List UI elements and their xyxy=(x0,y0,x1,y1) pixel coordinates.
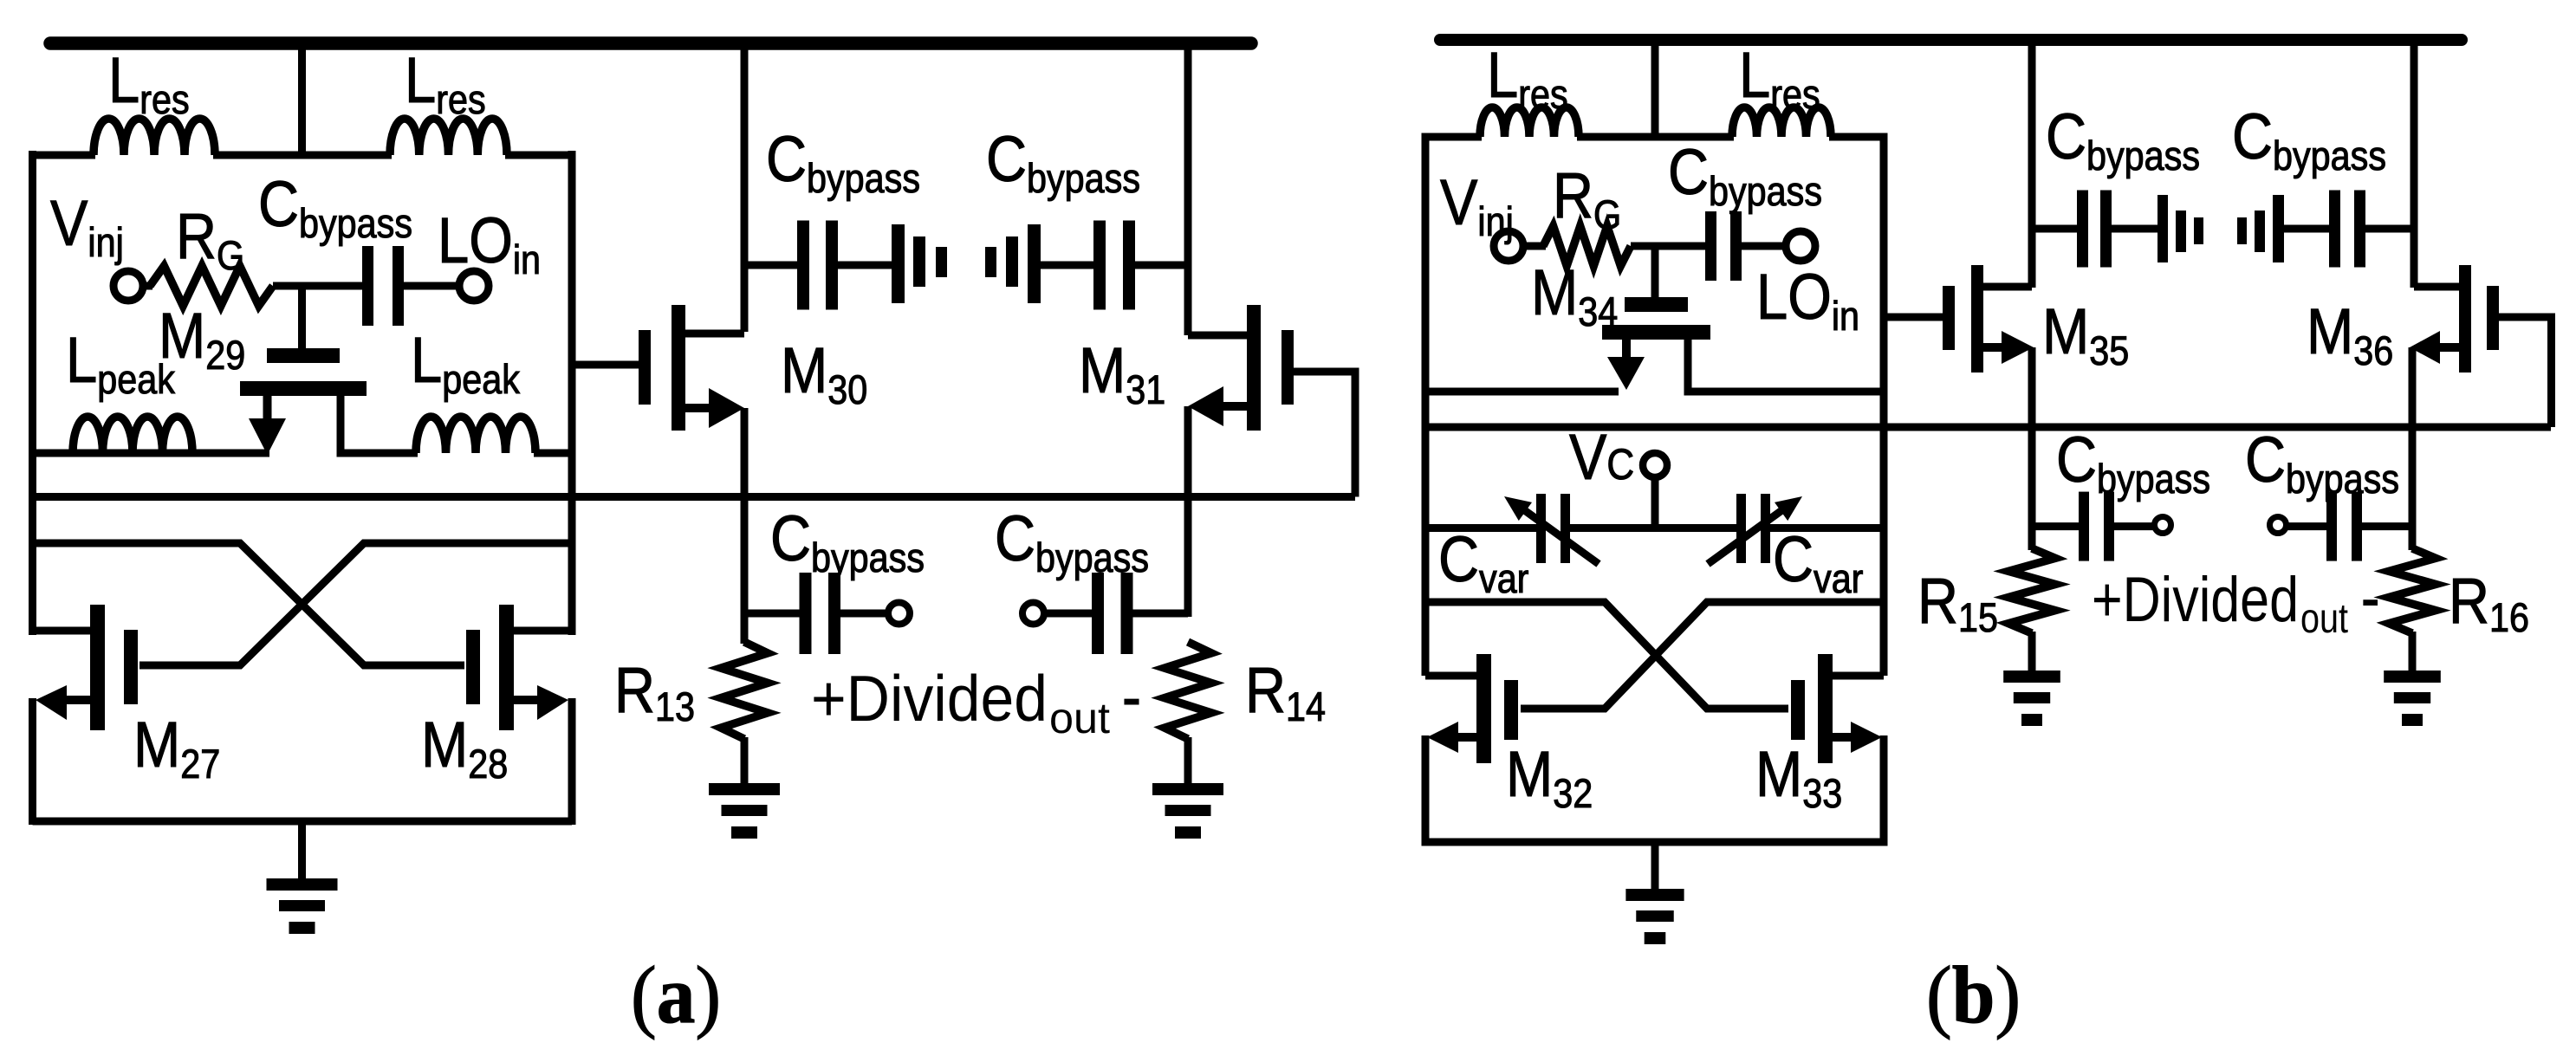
label (b) xyxy=(1926,949,2021,1040)
transistor M36 source arrow xyxy=(2410,331,2461,364)
transistor M31 gate bar xyxy=(1282,330,1294,405)
terminal Vinj (b) xyxy=(1494,231,1523,261)
wire cap to terminal (a left) xyxy=(839,610,887,618)
wire R13 top xyxy=(741,613,749,644)
svg-text:(b): (b) xyxy=(1926,949,2021,1040)
wire M31 gate lead xyxy=(1292,372,1355,497)
label M32 xyxy=(1506,738,1593,817)
wire M35 drain to cap (b) xyxy=(2032,225,2079,233)
transistor M36 gate bar xyxy=(2487,286,2499,350)
transistor M32 gate bar xyxy=(1504,680,1518,740)
wire RG to gate node (a) xyxy=(273,282,362,290)
transistor M30 drain lead xyxy=(684,330,744,338)
label M29 xyxy=(159,300,245,379)
label R16 xyxy=(2449,565,2529,641)
label Cbypass gate (b) xyxy=(1668,136,1822,215)
wire M31 drain vertical xyxy=(1184,43,1192,335)
terminal LOin (b) xyxy=(1786,231,1815,261)
wire cap mid-left (a) xyxy=(838,262,893,269)
label LOin (b) xyxy=(1756,261,1859,340)
label Vinj (a) xyxy=(50,187,124,266)
terminal divided out - (b) xyxy=(2270,517,2287,534)
terminal divided out + (a) xyxy=(888,603,910,625)
ground R15 xyxy=(2003,671,2060,726)
ground R14 xyxy=(1152,783,1223,839)
transistor M33 source arrow xyxy=(1831,722,1882,753)
wire M36 source vertical xyxy=(2409,347,2417,550)
label M36 xyxy=(2307,295,2393,374)
label Lpeak right (a) xyxy=(411,324,521,403)
label Vinj (b) xyxy=(1440,166,1514,245)
wire varactor line right (b) xyxy=(1768,524,1884,532)
wire cross-couple A (a) xyxy=(33,543,465,665)
wire varactor line mid (b) xyxy=(1568,524,1738,532)
wire tank box top-mid segment xyxy=(213,152,392,159)
wire M35 source to cap (b) xyxy=(2032,522,2080,530)
wire tank box top-right segment xyxy=(505,152,572,159)
capacitor Cbypass top-left (b) xyxy=(2077,191,2112,268)
transistor M35 channel bar xyxy=(1971,265,1983,373)
wire cross-couple B (a) xyxy=(140,543,572,665)
label Lres right (b) xyxy=(1739,39,1820,118)
transistor M29 gate bar xyxy=(267,348,340,363)
transistor M34 channel bar xyxy=(1602,325,1710,340)
capacitor top mid-left plates (b) xyxy=(2157,195,2203,262)
wire M33 source to tail (b) xyxy=(1880,735,1888,846)
transistor M36 channel bar xyxy=(2459,265,2471,373)
capacitor Cbypass top-right (b) xyxy=(2329,191,2365,268)
wire M36 drain vertical xyxy=(2411,40,2418,288)
label divided output (a) xyxy=(811,660,1141,742)
wire cap to M36 drain (b) xyxy=(2365,225,2414,233)
inductor Lpeak left (a) xyxy=(73,417,192,453)
transistor M33 gate bar xyxy=(1791,680,1805,740)
wire M35 source vertical xyxy=(2028,347,2036,550)
label divided output (b) xyxy=(2092,562,2379,642)
svg-text:-: - xyxy=(2361,562,2379,633)
transistor M35 source arrow xyxy=(1982,331,2034,364)
label Cbypass out-left (b) xyxy=(2056,424,2210,502)
wire Lpeak line right (a) xyxy=(534,450,572,457)
label Lres left (b) xyxy=(1487,39,1568,118)
transistor M33 channel bar xyxy=(1818,654,1833,763)
varactor Cvar left plates xyxy=(1536,494,1570,563)
inductor Lres right (b) xyxy=(1732,107,1831,137)
label VC xyxy=(1569,421,1634,493)
resistor R15 xyxy=(2008,548,2055,633)
transistor M28 gate bar xyxy=(466,630,480,704)
terminal divided out + (b) xyxy=(2155,517,2171,534)
terminal VC xyxy=(1643,453,1667,477)
resistor RG (a) xyxy=(150,266,273,306)
capacitor Cbypass out-left (a) xyxy=(800,573,841,654)
wire M30 source vertical xyxy=(741,408,749,617)
wire cap mid-right (b) xyxy=(2284,225,2331,233)
wire M30 gate lead xyxy=(572,361,640,369)
wire Lpeak line left (a) xyxy=(33,450,270,457)
transistor M27 source arrow xyxy=(36,685,92,720)
transistor M36 drain lead xyxy=(2414,283,2461,291)
wire cap mid-right (a) xyxy=(1039,262,1095,269)
label Lres left (a) xyxy=(108,44,190,123)
inductor Lres left (b) xyxy=(1480,107,1579,137)
wire tank box top-left segment xyxy=(33,152,96,159)
label M31 xyxy=(1079,334,1165,413)
resistor R14 xyxy=(1165,642,1211,739)
transistor M27 gate bar xyxy=(124,630,138,704)
transistor M30 source arrow xyxy=(684,388,744,428)
wire M30 drain vertical xyxy=(741,43,749,332)
wire cap to M31 drain (a) xyxy=(1133,262,1188,269)
label Lpeak left (a) xyxy=(66,324,176,403)
transistor M34 drain lead xyxy=(1688,340,1884,392)
wire tank box right edge upper (b) xyxy=(1880,133,1888,677)
wire tank box left edge upper (a) xyxy=(29,151,36,635)
transistor M28 source arrow xyxy=(512,685,568,720)
wire M27 source to tail (a) xyxy=(29,698,36,825)
transistor M31 channel bar xyxy=(1247,305,1261,431)
svg-text:(a): (a) xyxy=(631,949,721,1040)
varactor Cvar left arrow xyxy=(1504,496,1599,564)
label Cbypass out-left (a) xyxy=(770,502,925,581)
transistor M32 drain lead xyxy=(1425,672,1478,680)
label Cbypass out-right (b) xyxy=(2245,424,2399,502)
svg-text:+Divided: +Divided xyxy=(2092,565,2299,635)
transistor M28 drain lead xyxy=(512,627,572,635)
capacitor Cbypass top-left (a) xyxy=(797,221,838,310)
capacitor top mid-right plates (a) xyxy=(985,224,1041,303)
label M30 xyxy=(781,334,867,413)
transistor M30 channel bar xyxy=(672,305,685,431)
svg-text:+Divided: +Divided xyxy=(811,662,1048,735)
wire M36 gate lead xyxy=(2499,317,2552,427)
wire tank box right edge upper (a) xyxy=(568,151,576,635)
ground tail (a) xyxy=(267,878,338,934)
transistor M27 channel bar xyxy=(90,605,105,730)
label R15 xyxy=(1917,565,1998,641)
resistor R13 xyxy=(721,642,768,739)
power rail VDD (b) xyxy=(1440,34,2462,46)
transistor M34 source arrow xyxy=(1607,340,1645,390)
varactor Cvar right arrow xyxy=(1708,496,1802,564)
label RG (a) xyxy=(176,200,244,279)
wire tail stem (a) xyxy=(298,821,306,878)
label M33 xyxy=(1755,738,1842,817)
label Cbypass gate (a) xyxy=(258,168,412,247)
terminal LOin (a) xyxy=(459,271,489,301)
wire tank box left edge upper (b) xyxy=(1422,133,1430,677)
wire gate vertical M29 xyxy=(298,286,306,350)
resistor R16 xyxy=(2389,548,2436,633)
label M28 xyxy=(421,709,508,787)
wire cross-couple B (b) xyxy=(1521,602,1884,709)
transistor M32 channel bar xyxy=(1476,654,1491,763)
wire oscillator left node long line (a) xyxy=(33,493,1356,501)
wire cap to terminal (b left) xyxy=(2114,522,2155,530)
wire M35 drain vertical xyxy=(2028,40,2036,288)
capacitor Cbypass out-left (b) xyxy=(2079,492,2114,561)
wire gate vertical M34 xyxy=(1651,246,1659,299)
transistor M29 channel bar xyxy=(240,381,367,396)
wire VC stem xyxy=(1651,476,1659,529)
svg-text:-: - xyxy=(1122,660,1141,733)
transistor M34 gate bar xyxy=(1625,297,1688,312)
label LOin (a) xyxy=(438,204,541,283)
power rail VDD (a) xyxy=(50,36,1251,50)
wire tail line (a) xyxy=(33,818,573,826)
wire R14 bottom xyxy=(1184,737,1192,783)
wire cap to LOin (b) xyxy=(1742,243,1788,250)
wire R13 bottom xyxy=(741,737,749,783)
terminal Vinj (a) xyxy=(114,271,143,301)
transistor M30 gate bar xyxy=(639,330,651,405)
capacitor top mid-right plates (b) xyxy=(2237,195,2284,262)
transistor M33 drain lead xyxy=(1831,672,1884,680)
capacitor Cbypass gate (b) xyxy=(1705,211,1742,281)
svg-text:out: out xyxy=(2300,596,2348,642)
wire M35 gate lead xyxy=(1884,314,1944,321)
label M27 xyxy=(133,709,220,787)
wire varactor line left (b) xyxy=(1425,524,1538,532)
transistor M31 source arrow xyxy=(1188,386,1249,426)
wire Vinj to RG (a) xyxy=(141,282,152,290)
terminal divided out - (a) xyxy=(1022,603,1044,625)
capacitor Cbypass out-right (b) xyxy=(2326,492,2362,561)
label M34 xyxy=(1531,256,1618,335)
svg-text:out: out xyxy=(1049,694,1110,742)
label Cbypass top-right (a) xyxy=(986,123,1140,202)
transistor M35 gate bar xyxy=(1943,286,1955,350)
ground R13 xyxy=(709,783,780,839)
wire rail stub to tank box (b) xyxy=(1651,40,1659,140)
capacitor Cbypass gate (a) xyxy=(362,246,404,326)
wire tank box top-right segment (b) xyxy=(1829,133,1884,141)
label Lres right (a) xyxy=(405,44,486,123)
transistor M29 drain lead xyxy=(341,396,418,453)
label R13 xyxy=(614,654,695,730)
wire M30 source to cap tee (a) xyxy=(744,610,801,618)
wire M34 source line (b) xyxy=(1425,388,1619,396)
transistor M35 drain lead xyxy=(1982,283,2032,291)
ground R16 xyxy=(2384,671,2441,726)
wire oscillator left node long line (b) xyxy=(1425,424,2551,431)
wire rail stub to tank box (a) xyxy=(298,43,306,159)
varactor Cvar right plates xyxy=(1736,494,1770,563)
label RG (b) xyxy=(1553,159,1621,238)
capacitor Cbypass top-right (a) xyxy=(1093,221,1135,310)
wire cap to LOin (a) xyxy=(404,282,461,290)
wire RG to gate node (b) xyxy=(1631,243,1705,250)
capacitor top mid-left plates (a) xyxy=(892,224,947,303)
label Cvar left xyxy=(1438,523,1528,602)
label Cbypass top-left (b) xyxy=(2046,100,2200,179)
transistor M29 source arrow xyxy=(249,396,286,455)
wire M31 source vertical xyxy=(1184,406,1192,617)
wire cap to R14 (a) xyxy=(1132,610,1188,618)
resistor RG (b) xyxy=(1543,226,1631,266)
label (a) xyxy=(631,949,721,1040)
transistor M27 drain lead xyxy=(33,627,93,635)
wire tail line (b) xyxy=(1425,839,1884,846)
label M35 xyxy=(2042,295,2129,374)
wire tank box top-mid segment (b) xyxy=(1577,133,1734,141)
transistor M28 channel bar xyxy=(499,605,514,730)
capacitor Cbypass out-right (a) xyxy=(1092,573,1133,654)
wire terminal to cap (b right) xyxy=(2286,522,2328,530)
wire tank box top-left segment (b) xyxy=(1425,133,1482,141)
wire cross-couple A (b) xyxy=(1425,602,1788,709)
label R14 xyxy=(1245,654,1326,730)
wire M32 source to tail (b) xyxy=(1422,735,1430,846)
transistor M32 source arrow xyxy=(1427,722,1478,753)
wire cap to R16 (b) xyxy=(2362,522,2412,530)
inductor Lpeak right (a) xyxy=(416,417,535,453)
wire R16 bottom xyxy=(2409,632,2417,671)
inductor Lres left (a) xyxy=(94,119,215,155)
wire M28 source to tail (a) xyxy=(568,698,576,825)
transistor M31 drain lead xyxy=(1188,332,1249,340)
label Cbypass top-right (b) xyxy=(2232,100,2386,179)
ground tail (b) xyxy=(1625,889,1684,944)
label Cvar right xyxy=(1773,523,1863,602)
wire cap mid-left (b) xyxy=(2112,225,2159,233)
wire terminal to cap (a right) xyxy=(1044,610,1093,618)
inductor Lres right (a) xyxy=(390,119,507,155)
wire R15 bottom xyxy=(2028,632,2036,671)
wire tail stem (b) xyxy=(1651,842,1659,889)
label Cbypass top-left (a) xyxy=(766,123,920,202)
wire Vinj to RG (b) xyxy=(1522,243,1546,250)
label Cbypass out-right (a) xyxy=(995,502,1149,581)
wire M30 drain to cap (a) xyxy=(744,262,799,269)
